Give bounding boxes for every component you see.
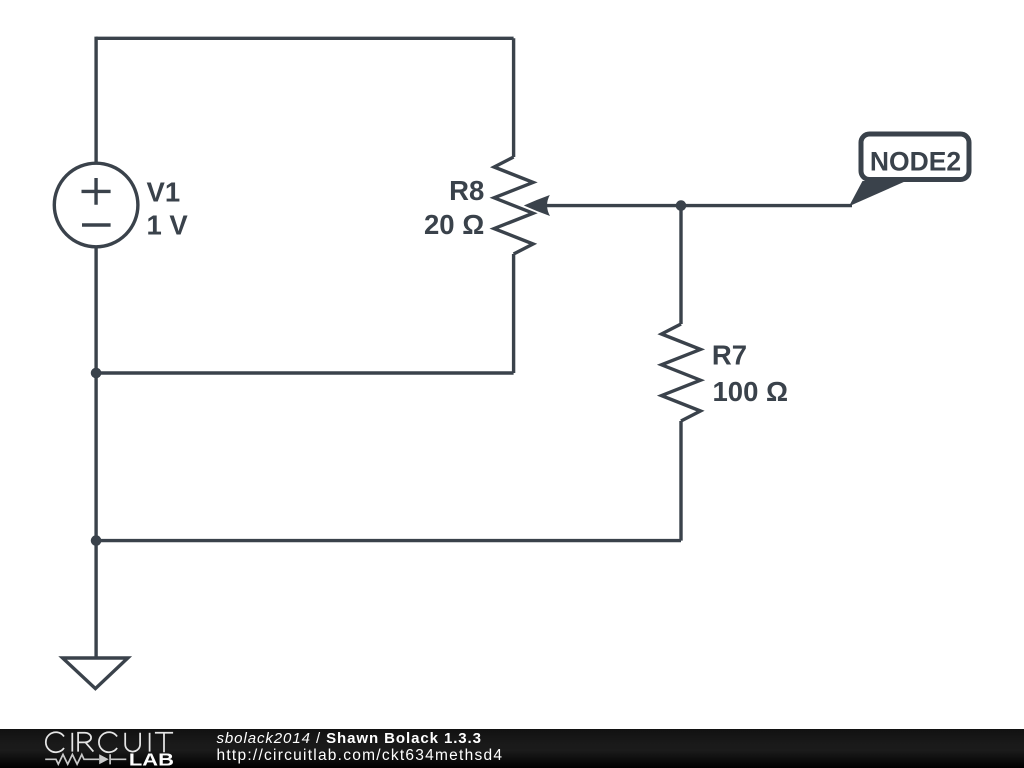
svg-text:R8: R8 bbox=[449, 175, 484, 206]
logo letter T bbox=[155, 733, 173, 752]
logo letter I bbox=[71, 733, 73, 752]
label R8 value 20 ohm bbox=[424, 209, 484, 240]
logo letter C2 bbox=[99, 732, 117, 752]
wire R7 bottom lead vertical bbox=[679, 421, 682, 541]
wire bottom horizontal (ground run to R7) bbox=[96, 539, 681, 542]
svg-text:V1: V1 bbox=[147, 177, 181, 208]
footer line 1 bbox=[217, 730, 482, 747]
NODE2 flag tail bbox=[849, 181, 906, 206]
label R7 name bbox=[712, 340, 747, 371]
voltage source V1 bbox=[54, 163, 138, 247]
wire R8 top lead vertical bbox=[512, 38, 515, 157]
label NODE2 text bbox=[870, 147, 961, 177]
logo resistor diode line bbox=[45, 754, 126, 764]
wire middle horizontal (V1 to R8 bottom) bbox=[96, 371, 513, 374]
wire wiper horizontal to NODE2 bbox=[543, 204, 852, 207]
resistor R7 body bbox=[662, 324, 701, 421]
node junction dot at R7 top bbox=[676, 200, 687, 211]
logo diode triangle bbox=[99, 754, 109, 764]
node junction dot left middle bbox=[91, 368, 102, 379]
label V1 value 1 V bbox=[147, 209, 189, 240]
svg-text:20 Ω: 20 Ω bbox=[424, 209, 484, 240]
footer bar bbox=[0, 729, 1024, 768]
wire left vertical lower (V1 bottom to ground) bbox=[94, 246, 97, 658]
wire top horizontal bbox=[96, 37, 513, 40]
NODE2 flag bubble bbox=[861, 134, 969, 180]
potentiometer R8 body bbox=[494, 157, 533, 254]
footer line 2 bbox=[217, 747, 504, 765]
CircuitLab logo bbox=[0, 729, 190, 768]
logo letter R bbox=[78, 733, 93, 752]
label R7 value 100 ohm bbox=[713, 376, 789, 407]
ground symbol bbox=[63, 658, 128, 689]
logo letter C bbox=[46, 732, 64, 752]
label V1 name bbox=[147, 177, 181, 208]
svg-text:R7: R7 bbox=[712, 340, 747, 371]
svg-text:1 V: 1 V bbox=[147, 209, 189, 240]
wire R7 top lead vertical bbox=[679, 206, 682, 324]
wire R8 bottom lead vertical bbox=[512, 254, 515, 373]
wire left vertical upper (V1 top to top wire) bbox=[94, 37, 97, 164]
svg-text:NODE2: NODE2 bbox=[870, 147, 961, 177]
logo letter I2 bbox=[149, 733, 151, 752]
svg-text:100 Ω: 100 Ω bbox=[713, 376, 789, 407]
node junction dot left bottom bbox=[91, 535, 102, 546]
R8 wiper arrow bbox=[524, 195, 550, 216]
logo letter U bbox=[125, 733, 140, 752]
label R8 name bbox=[449, 175, 484, 206]
svg-text:LAB: LAB bbox=[129, 750, 174, 768]
